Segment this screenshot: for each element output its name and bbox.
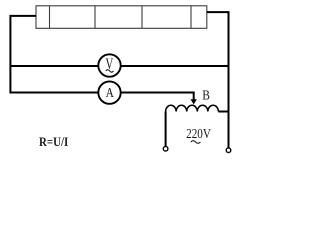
svg-text:R=U/I: R=U/I [39,134,69,149]
svg-text:B: B [202,88,210,103]
svg-text:220V: 220V [186,126,211,141]
svg-text:A: A [106,85,114,100]
